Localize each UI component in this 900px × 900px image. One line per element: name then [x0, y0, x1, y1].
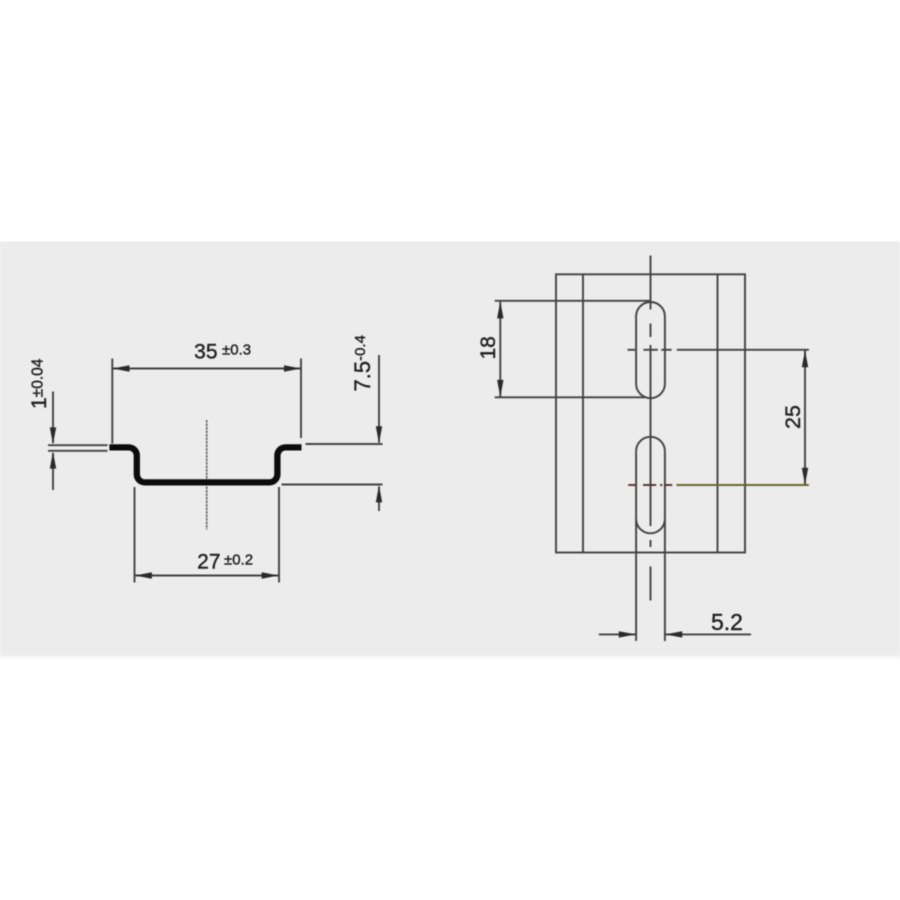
- dim 7.5 dimension line upper: [378, 355, 380, 443]
- dim 35 dimension line: [113, 368, 301, 370]
- dim 18 dimension line: [499, 302, 501, 397]
- gray drawing band: [0, 242, 900, 658]
- slot2 axis olive line to 25 dim: [676, 484, 809, 486]
- svg-text:35: 35: [194, 341, 217, 364]
- slot 2 right side / 5.2 extension: [664, 451, 666, 641]
- bend line right: [717, 274, 719, 552]
- dim 1 lower surface line: [48, 450, 108, 452]
- dim 7.5 top extension line: [306, 443, 383, 445]
- dim 18 upper extension line: [495, 300, 651, 302]
- dim 25 arrows: [802, 350, 808, 367]
- dim 27 left extension line: [134, 487, 136, 583]
- svg-text:5.2: 5.2: [711, 609, 743, 635]
- dim 5.2 arrows: [619, 631, 636, 637]
- dim 35 left extension line: [111, 359, 113, 444]
- svg-text:±0.2: ±0.2: [224, 552, 253, 569]
- slot 2 top arc: [636, 437, 665, 451]
- slot 1: [636, 302, 665, 398]
- dim 25 dimension line: [804, 350, 806, 484]
- dim 27 arrows: [135, 572, 152, 578]
- svg-text:27: 27: [197, 551, 220, 574]
- dim 27 right extension line: [278, 487, 280, 583]
- slot1 axis long line to 25 dim: [677, 349, 809, 351]
- slot 2 left side / 5.2 extension: [635, 451, 637, 641]
- dim 18 arrows: [497, 301, 503, 318]
- slot2 axis red dashes: [628, 484, 672, 486]
- cross-section centerline: [206, 420, 208, 530]
- dim 5.2 dimension line left: [599, 633, 636, 635]
- dim 5.2 dimension line right: [666, 633, 752, 635]
- svg-text:18: 18: [477, 336, 500, 359]
- rail cross-section profile: [109, 447, 301, 482]
- dim 7.5 arrows: [376, 426, 382, 443]
- dim 7.5 bottom extension line: [282, 484, 383, 486]
- dim 35 arrows: [113, 365, 130, 371]
- bend line left: [582, 274, 584, 552]
- slot1 axis dash-dot: [628, 349, 636, 351]
- dim 35 right extension line: [300, 359, 302, 439]
- dim 1 arrows: [50, 427, 56, 444]
- dim 1 upper arrow tail: [52, 392, 54, 444]
- slot 2 bottom arc: [636, 519, 665, 533]
- dim 18 lower extension line: [495, 396, 645, 398]
- dim 1 lower arrow tail: [52, 453, 54, 490]
- rail front outline: [556, 274, 745, 552]
- dim 7.5 lower arrow tail: [378, 487, 380, 512]
- svg-text:±0.3: ±0.3: [222, 342, 251, 359]
- vertical centerline segments: [650, 256, 652, 310]
- svg-text:25: 25: [781, 405, 805, 429]
- dim 1 upper surface line: [48, 444, 108, 446]
- dim 27 dimension line: [135, 575, 279, 577]
